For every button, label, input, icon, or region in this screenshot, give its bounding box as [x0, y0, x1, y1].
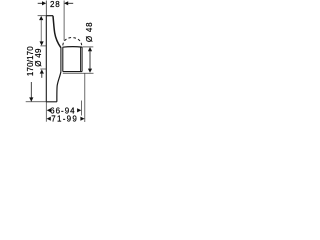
- ext line B (71-99): [84, 73, 86, 122]
- dim 71-99: [47, 117, 51, 121]
- collar left line: [60, 47, 62, 72]
- svg-text:71-99: 71-99: [51, 114, 78, 123]
- knob front edge: [80, 47, 82, 72]
- dim 28 left arrow: [38, 2, 43, 4]
- O48 extension line bottom: [63, 72, 94, 74]
- svg-text:28: 28: [50, 0, 61, 9]
- dim 66-94: [47, 108, 51, 112]
- O48 dim line with arrows: [88, 47, 92, 51]
- O49 upper line with arrows: [39, 16, 43, 20]
- bell curve to wall: [57, 72, 61, 102]
- bottom extension line left: [26, 101, 47, 103]
- 170/170 dim line: [30, 82, 32, 98]
- dim 28 right arrow: [64, 1, 68, 5]
- knob bottom edge: [63, 71, 82, 73]
- lever front S-curve: [53, 16, 61, 48]
- svg-text:Ø 49: Ø 49: [34, 48, 43, 67]
- ext line A (66-94): [81, 101, 83, 116]
- collar right / knob left line: [62, 47, 64, 72]
- dashed lever knob arc: [63, 37, 82, 45]
- wall line: [45, 1, 47, 16]
- O49 extension line top: [40, 45, 46, 47]
- 170/170 down arrow: [29, 97, 33, 101]
- handle top edge + left extension: [38, 15, 47, 17]
- extension line right of 28: [63, 1, 65, 41]
- wall extension line bottom: [45, 102, 47, 122]
- O48 extension line top: [82, 46, 93, 48]
- O49 extension line bottom: [40, 68, 46, 70]
- knob top edge: [63, 46, 83, 49]
- svg-text:Ø 48: Ø 48: [85, 22, 94, 43]
- bottom face: [46, 101, 57, 103]
- O49 lower up arrow: [40, 69, 44, 73]
